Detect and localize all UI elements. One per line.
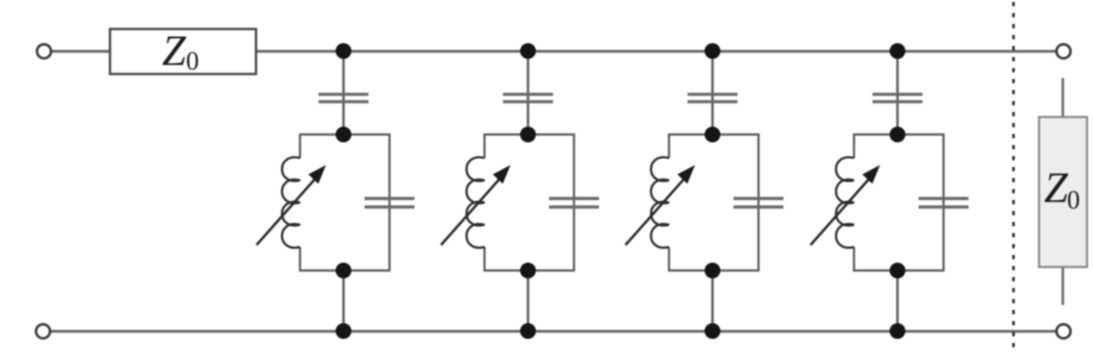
svg-text:0: 0: [186, 47, 199, 76]
svg-text:0: 0: [1067, 186, 1080, 215]
svg-text:Z: Z: [162, 28, 187, 75]
svg-text:Z: Z: [1044, 165, 1069, 212]
